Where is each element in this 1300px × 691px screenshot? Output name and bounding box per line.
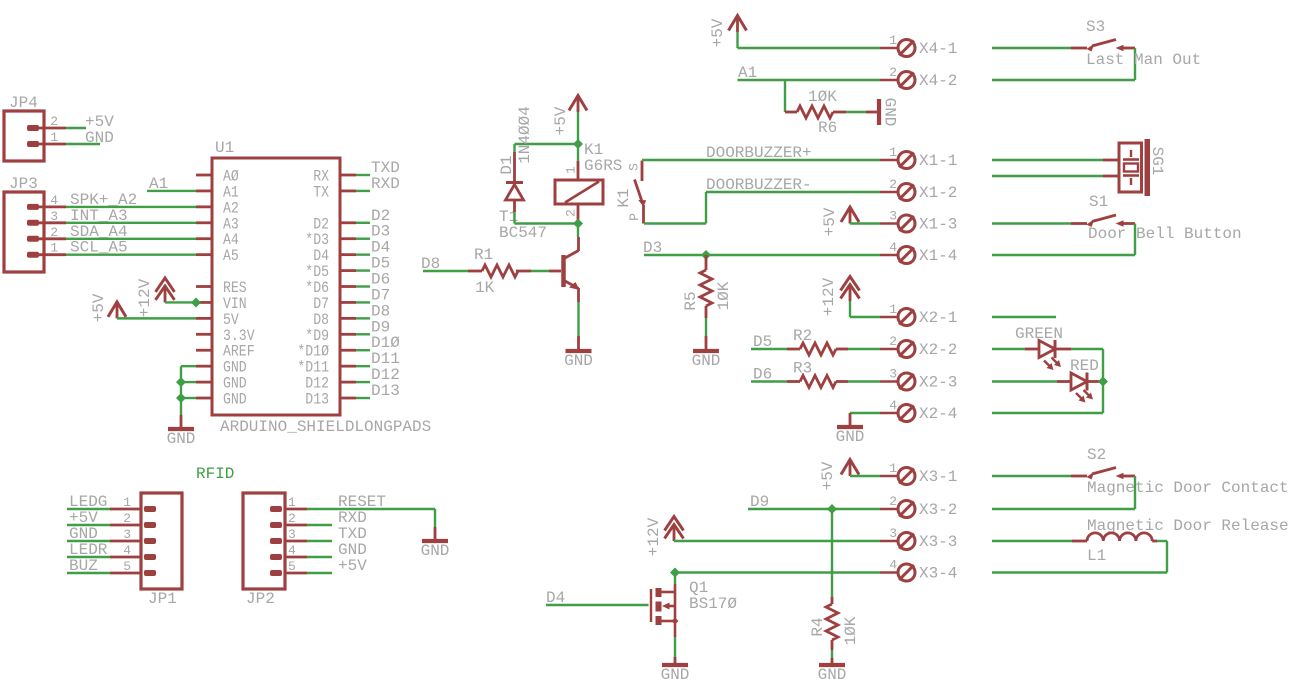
svg-text:+5V: +5V	[821, 207, 839, 236]
wire R4 to ground	[831, 650, 833, 658]
svg-text:1: 1	[564, 166, 579, 174]
junction X3-4/Q1	[670, 568, 680, 578]
junction D3/R5	[701, 250, 711, 260]
svg-text:4: 4	[889, 558, 897, 573]
svg-text:JP4: JP4	[9, 94, 38, 112]
svg-text:5: 5	[288, 559, 296, 574]
svg-text:X4-1: X4-1	[919, 40, 957, 58]
svg-text:4: 4	[123, 543, 131, 558]
svg-text:X2-1: X2-1	[919, 309, 957, 327]
svg-text:D1: D1	[498, 155, 516, 174]
resistor R6	[785, 88, 846, 137]
svg-text:1ØK: 1ØK	[842, 616, 860, 645]
wire net GND at JP2	[307, 541, 367, 559]
wire net D3	[643, 239, 880, 257]
terminal X3-4	[880, 558, 957, 583]
svg-text:1ØK: 1ØK	[715, 281, 733, 310]
relay coil K1 G6RS	[555, 141, 622, 220]
svg-text:3: 3	[123, 527, 131, 542]
wire net D2	[356, 207, 390, 225]
power +5V arrow top	[709, 16, 747, 48]
svg-text:JP1: JP1	[148, 590, 177, 608]
svg-text:DOORBUZZER+: DOORBUZZER+	[706, 144, 812, 162]
wire net D13	[356, 382, 400, 400]
wire GREEN LED to vertical	[1071, 349, 1103, 413]
terminal X2-3	[880, 367, 957, 392]
svg-text:3: 3	[50, 209, 58, 224]
wire net TXD at JP2	[307, 525, 367, 543]
svg-text:X3-3: X3-3	[919, 533, 957, 551]
junction D9/R4	[827, 504, 837, 514]
wire R4 from D9 junction	[831, 509, 833, 597]
wire +5V down to junction	[577, 112, 579, 144]
junction K1 pin2 / T1 collector	[573, 219, 583, 229]
svg-text:D5: D5	[753, 333, 772, 351]
power +12V arrow at X2-1	[820, 277, 860, 318]
wire net D12	[356, 366, 400, 384]
power +5V arrow at X3-1	[819, 460, 859, 491]
svg-text:Last Man Out: Last Man Out	[1086, 51, 1201, 69]
svg-text:D13: D13	[371, 382, 400, 400]
wire net RXD at JP2	[307, 509, 367, 527]
power +5V arrow above relay	[552, 96, 587, 136]
wire net INT_A3	[66, 207, 196, 225]
svg-text:GND: GND	[836, 428, 865, 446]
svg-text:GND: GND	[692, 352, 721, 370]
resistor R2	[787, 327, 848, 355]
wire R5 to ground	[705, 318, 707, 336]
wire Q1 drain	[674, 573, 676, 593]
wire net RXD	[356, 175, 400, 193]
wire net D8	[356, 302, 390, 320]
svg-text:GND: GND	[564, 352, 593, 370]
wire R6 to ground	[846, 111, 866, 113]
svg-text:+5V: +5V	[819, 461, 837, 490]
wire net RESET	[307, 493, 435, 511]
svg-text:X3-2: X3-2	[919, 501, 957, 519]
switch S2	[992, 446, 1289, 509]
svg-text:Door Bell Button: Door Bell Button	[1088, 225, 1242, 243]
relay contact K1	[615, 161, 646, 224]
terminal X4-2	[880, 65, 957, 90]
svg-text:2: 2	[50, 225, 58, 240]
wire net D6	[751, 366, 787, 384]
resistor R1	[468, 246, 531, 297]
terminal X1-1	[880, 145, 957, 170]
svg-text:1: 1	[50, 130, 58, 145]
svg-text:R6: R6	[818, 119, 837, 137]
svg-text:R2: R2	[793, 327, 812, 345]
ground Q1	[661, 657, 690, 684]
svg-text:A1: A1	[738, 64, 757, 82]
wire net D11	[356, 350, 400, 368]
wire net D4	[546, 589, 649, 607]
wire net D3	[356, 223, 390, 241]
svg-text:2: 2	[889, 494, 897, 509]
resistor R4	[809, 597, 860, 650]
wire +5V to X1-3	[850, 222, 880, 224]
svg-text:1: 1	[889, 145, 897, 160]
svg-text:S2: S2	[1087, 446, 1106, 464]
wire Q1 source to ground	[674, 637, 676, 657]
inductor L1	[992, 533, 1157, 565]
wire Q1 drain to X3-4	[675, 571, 880, 573]
svg-text:L1: L1	[1087, 547, 1106, 565]
svg-text:X3-4: X3-4	[919, 565, 957, 583]
svg-text:R1: R1	[474, 246, 493, 264]
svg-text:RED: RED	[1070, 357, 1099, 375]
svg-text:R3: R3	[793, 360, 812, 378]
svg-text:X3-1: X3-1	[919, 468, 957, 486]
svg-text:GND: GND	[167, 430, 196, 448]
label RFID	[196, 465, 234, 483]
ground R5	[692, 336, 721, 370]
svg-text:JP3: JP3	[9, 175, 38, 193]
wire GND from JP4 pin 1	[66, 129, 114, 147]
wire net SDA_A4	[66, 223, 196, 241]
svg-text:4: 4	[288, 543, 296, 558]
wire ground to X2-4	[850, 412, 880, 414]
svg-text:1: 1	[288, 495, 296, 510]
svg-text:GND: GND	[881, 98, 899, 127]
terminal X3-2	[880, 494, 957, 519]
ground U1	[167, 415, 196, 448]
wire +5V to X4-1	[738, 32, 881, 48]
wire GND bus vertical	[181, 366, 196, 415]
svg-text:D8: D8	[421, 255, 440, 273]
svg-text:SCL_A5: SCL_A5	[70, 239, 128, 257]
transistor T1 BC547	[499, 208, 580, 302]
ground T1	[564, 336, 593, 370]
wire net LEDG to JP1	[67, 493, 110, 511]
terminal X1-3	[880, 209, 957, 234]
svg-text:ARDUINO_SHIELDLONGPADS: ARDUINO_SHIELDLONGPADS	[220, 418, 431, 436]
wire net DOORBUZZER-	[644, 176, 880, 224]
svg-text:G6RS: G6RS	[584, 157, 622, 175]
svg-text:RXD: RXD	[371, 175, 400, 193]
svg-text:3: 3	[889, 526, 897, 541]
svg-text:P: P	[627, 213, 642, 221]
svg-text:4: 4	[889, 398, 897, 413]
connector JP2	[243, 493, 307, 608]
wire D1 bottom to junction	[515, 212, 579, 224]
wire net D4	[356, 239, 390, 257]
svg-text:2: 2	[123, 511, 131, 526]
svg-text:Magnetic Door Contact: Magnetic Door Contact	[1087, 479, 1289, 497]
svg-text:2: 2	[564, 209, 579, 217]
svg-text:D9: D9	[750, 493, 769, 511]
transistor Q1 BS170	[651, 579, 737, 637]
wire net A1	[147, 175, 196, 193]
switch S1	[992, 193, 1242, 255]
power +5V arrow at 5V pin	[90, 293, 126, 322]
wire net DOORBUZZER+	[642, 144, 880, 162]
svg-text:X2-3: X2-3	[919, 374, 957, 392]
ground R4	[818, 658, 847, 684]
svg-text:X1-4: X1-4	[919, 247, 957, 265]
wire net D5	[751, 333, 787, 351]
wire net +5V at JP2	[307, 557, 367, 575]
svg-text:BC547: BC547	[499, 224, 547, 242]
power +12V arrow at VIN	[136, 278, 175, 317]
terminal X1-2	[880, 177, 957, 202]
terminal X1-4	[880, 240, 957, 265]
wire net SCL_A5	[66, 239, 196, 257]
svg-text:X4-2: X4-2	[919, 72, 957, 90]
svg-text:BS17Ø: BS17Ø	[689, 595, 737, 613]
svg-text:+12V: +12V	[645, 517, 663, 556]
terminal X2-1	[880, 302, 957, 327]
svg-text:+12V: +12V	[820, 277, 838, 316]
svg-text:D3: D3	[643, 239, 662, 257]
svg-text:D6: D6	[753, 366, 772, 384]
svg-text:GND: GND	[223, 391, 247, 409]
connector JP4	[4, 94, 66, 161]
buzzer SG1	[992, 139, 1166, 196]
ground at X2-4	[836, 413, 865, 446]
svg-text:X2-4: X2-4	[919, 405, 957, 423]
svg-text:+5V: +5V	[552, 106, 570, 135]
svg-text:+5V: +5V	[709, 18, 727, 47]
wire net D10	[356, 334, 400, 352]
svg-text:S1: S1	[1089, 193, 1108, 211]
wire net D6	[356, 271, 390, 289]
svg-text:JP2: JP2	[246, 590, 275, 608]
svg-text:1K: 1K	[475, 279, 495, 297]
svg-text:DOORBUZZER-: DOORBUZZER-	[706, 176, 812, 194]
connector JP3	[4, 175, 66, 272]
svg-text:R4: R4	[809, 617, 827, 636]
svg-text:D4: D4	[546, 589, 565, 607]
wire net D5	[356, 255, 390, 273]
svg-text:BUZ: BUZ	[69, 557, 98, 575]
svg-text:2: 2	[889, 334, 897, 349]
svg-text:S: S	[627, 163, 642, 171]
ground at R6 (rotated)	[866, 98, 899, 127]
wire +5V to X3-1	[850, 475, 880, 477]
svg-text:+5V: +5V	[90, 293, 108, 322]
label Magnetic Door Release	[1087, 517, 1289, 535]
svg-text:X1-2: X1-2	[919, 184, 957, 202]
wire net SPK+_A2	[66, 191, 196, 209]
svg-text:3: 3	[889, 209, 897, 224]
ground at JP2 RESET	[421, 527, 450, 560]
wire junction to K1 pin 1	[577, 144, 579, 161]
LED RED	[992, 357, 1103, 403]
svg-text:U1: U1	[215, 139, 234, 157]
wire junction to D1 top	[515, 143, 579, 145]
terminal X2-4	[880, 398, 957, 423]
junction GND pins	[176, 377, 186, 403]
terminal X3-3	[880, 526, 957, 551]
svg-text:A5: A5	[223, 247, 239, 265]
wire T1 emitter to ground	[577, 302, 579, 336]
wire net +5V to JP1	[67, 509, 110, 527]
wire +12V to X3-3	[674, 540, 880, 542]
wire K1 pin2 to collector	[577, 220, 579, 237]
wire net A1 to X4-2	[738, 64, 881, 82]
wire +12V to X2-1	[850, 316, 880, 318]
svg-text:GND: GND	[661, 666, 690, 684]
connector JP1	[110, 493, 182, 608]
IC U1 ARDUINO_SHIELDLONGPADS	[196, 139, 431, 436]
wire net D7	[356, 286, 390, 304]
wire +5V from JP4 pin 2	[66, 113, 114, 131]
svg-text:5: 5	[123, 559, 131, 574]
wire net BUZ to JP1	[67, 557, 110, 575]
wire net D9	[356, 318, 390, 336]
svg-text:+12V: +12V	[136, 278, 154, 317]
svg-text:X1-1: X1-1	[919, 152, 957, 170]
svg-text:S3: S3	[1086, 18, 1105, 36]
svg-text:Magnetic Door Release: Magnetic Door Release	[1087, 517, 1289, 535]
svg-text:GREEN: GREEN	[1015, 325, 1063, 343]
svg-text:3: 3	[288, 527, 296, 542]
svg-text:2: 2	[889, 177, 897, 192]
diode D1 1N4004	[498, 106, 534, 212]
svg-text:1: 1	[889, 461, 897, 476]
terminal X2-2	[880, 334, 957, 359]
svg-text:4: 4	[889, 240, 897, 255]
svg-text:GND: GND	[421, 542, 450, 560]
svg-text:SG1: SG1	[1148, 147, 1166, 176]
wire R2 to X2-2	[848, 348, 880, 350]
terminal X4-1	[880, 33, 957, 58]
wire A1 branch down to R6	[784, 80, 786, 112]
svg-text:1: 1	[889, 302, 897, 317]
svg-text:2: 2	[50, 114, 58, 129]
svg-text:A1: A1	[149, 175, 168, 193]
svg-text:1: 1	[889, 33, 897, 48]
svg-text:TX: TX	[313, 183, 329, 201]
svg-text:2: 2	[889, 65, 897, 80]
LED GREEN	[992, 325, 1071, 370]
svg-text:K1: K1	[615, 188, 633, 207]
svg-text:1: 1	[50, 241, 58, 256]
wire net TXD	[356, 159, 400, 177]
wire bottom LED row	[992, 412, 1103, 414]
wire L1 to X3-4 row	[992, 541, 1167, 573]
junction +5V/D1/K1	[573, 139, 583, 149]
resistor R3	[787, 360, 848, 388]
junction RED LED cathode	[1098, 377, 1108, 387]
svg-text:R5: R5	[682, 291, 700, 310]
wire stub X2-1 right	[992, 316, 1056, 318]
svg-text:1ØK: 1ØK	[808, 88, 837, 106]
svg-text:GND: GND	[85, 129, 114, 147]
svg-text:X1-3: X1-3	[919, 216, 957, 234]
resistor R5	[682, 255, 733, 318]
svg-text:1: 1	[123, 495, 131, 510]
wire net D9	[748, 493, 880, 511]
junction at VIN pin	[191, 297, 201, 307]
wire VIN	[165, 301, 196, 303]
power +12V arrow at X3-3	[645, 517, 684, 557]
svg-text:4: 4	[50, 193, 58, 208]
wire net D8	[421, 255, 468, 273]
wire net LEDR to JP1	[67, 541, 110, 559]
wire R3 to X2-3	[848, 380, 880, 382]
switch S3	[992, 18, 1201, 80]
wire 5V	[117, 317, 196, 319]
wire R1 to T1 base	[531, 270, 549, 272]
svg-text:GND: GND	[818, 666, 847, 684]
svg-text:+5V: +5V	[338, 557, 367, 575]
wire RESET down to ground	[434, 509, 436, 527]
svg-text:RFID: RFID	[196, 465, 234, 483]
terminal X3-1	[880, 461, 957, 486]
svg-text:2: 2	[288, 511, 296, 526]
wire net GND to JP1	[67, 525, 110, 543]
svg-text:3: 3	[889, 367, 897, 382]
svg-text:X2-2: X2-2	[919, 341, 957, 359]
power +5V arrow at X1-3	[821, 207, 859, 236]
svg-text:D13: D13	[305, 391, 329, 409]
svg-text:1N4ØØ4: 1N4ØØ4	[516, 106, 534, 164]
